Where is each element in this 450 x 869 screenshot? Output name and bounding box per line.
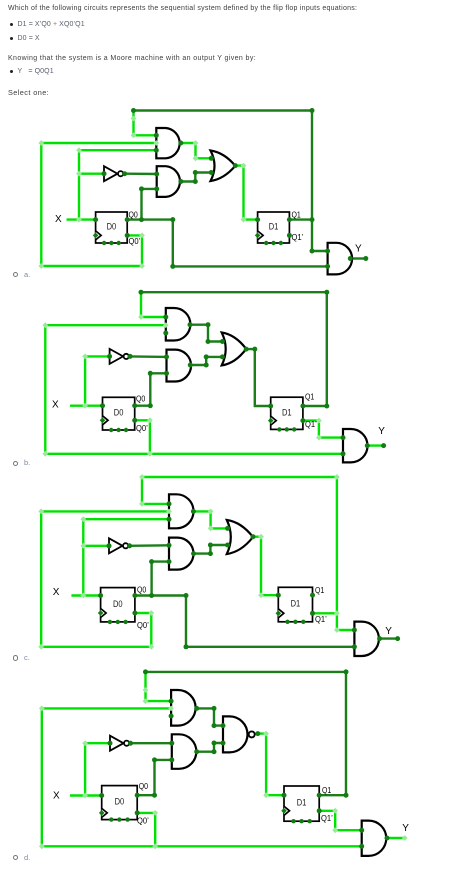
wire bright drop into AND G1 input 1: [141, 292, 166, 317]
svg-text:Y: Y: [355, 243, 362, 254]
paragraph 2: [8, 55, 256, 63]
svg-text:D0: D0: [114, 408, 124, 418]
D flip-flop D0: [102, 786, 138, 820]
wire Y output: [367, 444, 383, 446]
wire AND G1 output to OR input 1: [193, 511, 227, 528]
wire Q0' loop left vertical and bottom to Y-AND input 2: [42, 708, 362, 846]
NAND gate G3: [223, 716, 248, 752]
junction dots: [143, 669, 148, 674]
wire Q0 up into AND G2 input 2: [152, 562, 169, 596]
wire X vertical: [82, 519, 84, 595]
svg-text:Q0’: Q0’: [137, 620, 149, 630]
wire X vertical: [84, 743, 86, 795]
wire AND G1 output to OR input 1: [181, 143, 212, 158]
svg-text:X: X: [53, 587, 60, 598]
wire X input stub to D0: [70, 405, 103, 407]
wire Q1' output of D1 to vertical: [313, 612, 337, 614]
AND gate G1 (3-input): [169, 494, 194, 528]
wire Q0' loop horizontal into AND G1 input 2: [41, 142, 156, 144]
radio button option d: [13, 855, 18, 860]
wire AND G2 output to OR input 2: [190, 357, 222, 365]
svg-text:Q1’: Q1’: [321, 813, 333, 823]
svg-text:Q0’: Q0’: [129, 236, 141, 246]
wire Q0 across bottom to Y-AND input 2: [135, 596, 355, 647]
wire NOT output to AND G2 input 1: [130, 544, 170, 547]
radio button option a: [13, 272, 18, 277]
junction dots: [131, 108, 136, 113]
radio button option b: [13, 461, 18, 466]
wire Q0' loop horizontal into AND G1 input 2: [41, 510, 169, 512]
D flip-flop D1: [278, 587, 312, 622]
wire X into NOT gate input: [79, 172, 104, 174]
svg-text:Q1: Q1: [315, 585, 325, 595]
AND gate G1 (3-input): [166, 308, 191, 341]
wire Y output: [380, 637, 398, 639]
AND gate G1 (3-input): [171, 690, 196, 726]
AND gate G1 (3-input): [156, 128, 179, 158]
wire X into AND G1 input 3: [79, 149, 156, 151]
wire bright drop from top net into AND G1 input 1: [134, 111, 157, 136]
svg-text:D0: D0: [113, 599, 123, 609]
wire AND G2 output to NAND input 2: [197, 743, 223, 752]
svg-text:D0: D0: [107, 222, 117, 232]
svg-text:Q0: Q0: [129, 210, 139, 220]
svg-text:Q1: Q1: [292, 210, 302, 220]
svg-text:D0: D0: [115, 797, 125, 807]
AND gate G5 output Y: [343, 429, 368, 462]
wire drop into AND G1 input 1: [142, 477, 169, 504]
NOT gate G4: [110, 349, 124, 364]
svg-text:Y: Y: [402, 823, 409, 834]
AND gate G5 output Y: [354, 622, 379, 656]
bullet 1: [10, 23, 13, 26]
wire X into NOT gate input: [85, 742, 110, 744]
wire NOT output to AND G2 input 1: [130, 355, 166, 358]
wire NAND output down to D1 input: [258, 734, 284, 796]
select one: [8, 89, 49, 97]
junction dots: [167, 501, 172, 506]
svg-text:Q1’: Q1’: [305, 419, 317, 429]
bullet 3: [10, 70, 13, 73]
wire end diamonds: [131, 116, 137, 122]
wire net Q1 top (dark): horizontal and right vertical: [141, 292, 327, 406]
svg-text:Y: Y: [385, 626, 392, 637]
wire end diamonds: [138, 314, 144, 320]
wire Q0 up into AND G2 input 2: [135, 373, 167, 405]
svg-text:D1: D1: [282, 407, 292, 417]
wire Q0' loop down-left-up: [41, 143, 142, 266]
svg-text:X: X: [52, 400, 59, 411]
wire X into NOT gate input: [85, 355, 110, 357]
svg-text:Q0’: Q0’: [136, 423, 148, 433]
D flip-flop D0: [103, 397, 135, 430]
wire AND G2 output to OR input 2: [181, 173, 211, 182]
svg-text:Q1: Q1: [322, 785, 332, 795]
wire Q0' loop left vertical and bottom to Y-AND input 2: [45, 325, 343, 454]
svg-text:Q1’: Q1’: [315, 614, 327, 624]
wire Q1 output of D1: [319, 794, 346, 796]
wire Q0' loop horizontal into AND G1 input 2: [45, 324, 166, 326]
wire net Q1 feedback top (dark): top horizontal, right vertical, into Y-AND input: [134, 111, 328, 252]
wire Q1 output of D1 to vertical: [289, 218, 312, 220]
AND gate G2 (2-input): [157, 166, 180, 197]
wire X vertical: [78, 150, 80, 219]
wire Q0' from D0 down to bottom loop: [137, 813, 155, 846]
wire Y output: [350, 257, 366, 259]
NOT gate G4: [109, 538, 123, 553]
svg-text:Q0: Q0: [137, 585, 147, 595]
svg-text:Q0: Q0: [136, 394, 146, 404]
wire Q1' to Y-AND input 1: [319, 811, 362, 830]
junction dots: [139, 290, 144, 295]
wire Q1 output of D1: [303, 405, 327, 407]
wire Q0 across bottom to Y-AND input 2: [127, 220, 327, 267]
wire OR output down to D1 input: [246, 349, 271, 406]
wire net Q1' top (bright): top horizontal, right vertical, into Y-AND input 1: [142, 477, 354, 630]
AND gate G5 output Y: [328, 243, 352, 275]
D flip-flop D0: [96, 212, 128, 243]
wire Q0 up into AND G2 input 2: [137, 760, 172, 795]
OR gate G3: [227, 520, 253, 554]
wire AND G1 output to NAND input 1: [197, 708, 223, 725]
D flip-flop D1: [284, 786, 319, 821]
svg-text:Q1: Q1: [305, 392, 315, 402]
svg-text:D1: D1: [291, 599, 301, 609]
wire end diamonds: [143, 687, 149, 693]
wire X into AND G1 input 3: [83, 518, 169, 520]
NOT gate G4: [110, 736, 124, 751]
wire AND G1 output to OR input 1: [190, 325, 222, 342]
wire X input stub to D0: [70, 794, 102, 796]
svg-text:D1: D1: [269, 222, 279, 232]
wire X vertical: [84, 356, 86, 405]
wire Q0' loop horizontal into AND G1 input 2: [42, 707, 171, 709]
D flip-flop D0: [101, 588, 135, 622]
bullet 2: [10, 37, 13, 40]
svg-text:Q0’: Q0’: [137, 816, 149, 826]
wire AND G2 output to OR input 2: [194, 545, 228, 554]
svg-text:Y: Y: [378, 426, 385, 437]
wire X input stub to D0: [71, 594, 100, 596]
AND gate G5 output Y: [362, 821, 387, 856]
wire net Q1 top (dark): horizontal and right vertical: [146, 672, 347, 795]
wire Q1' to Y-AND input 1: [303, 421, 343, 438]
radio button option c: [13, 655, 18, 660]
svg-text:Q1’: Q1’: [292, 232, 304, 242]
wire NOT output to AND G2 input 1: [131, 742, 172, 744]
wire end diamonds: [139, 474, 145, 480]
wire OR output down to D1 input: [235, 166, 257, 220]
AND gate G2 (2-input): [169, 538, 194, 570]
svg-text:D1: D1: [297, 798, 307, 808]
wire OR output down to D1 input: [253, 537, 278, 596]
wire Q0' from D0 down to bottom loop: [135, 420, 150, 454]
wire X input stub to D0: [67, 218, 96, 220]
wire NOT output to AND G2 input 1: [125, 172, 157, 175]
wire Y output: [387, 837, 405, 839]
svg-text:Q0: Q0: [139, 781, 149, 791]
NOT gate G4: [104, 166, 118, 181]
question title text: [8, 5, 357, 13]
svg-text:X: X: [55, 214, 62, 225]
svg-text:X: X: [53, 791, 60, 802]
AND gate G2 (2-input): [167, 350, 192, 382]
AND gate G2 (2-input): [172, 734, 197, 769]
D flip-flop D1: [258, 212, 290, 243]
wire Q0' loop down-left-up: [41, 511, 151, 646]
OR gate G3: [211, 151, 236, 182]
OR gate G3: [222, 333, 247, 366]
wire X into NOT gate input: [83, 545, 109, 547]
D flip-flop D1: [271, 397, 303, 429]
wire bright drop into AND G1 input 1: [146, 672, 172, 701]
wire Q0 up into AND G2 input 2: [142, 189, 157, 220]
